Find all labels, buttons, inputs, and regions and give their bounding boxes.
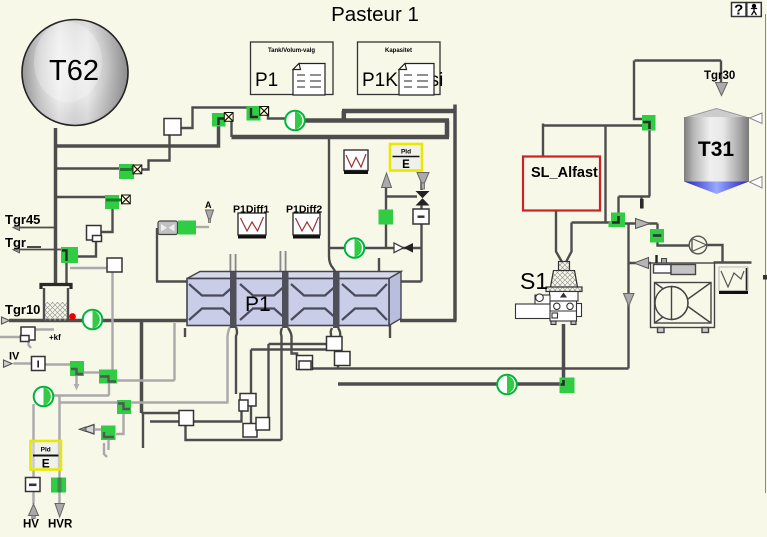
svg-text:Pasteur 1: Pasteur 1 — [331, 3, 419, 26]
svg-text:+kf: +kf — [49, 333, 61, 342]
svg-text:I: I — [37, 360, 40, 371]
svg-text:Tgr10: Tgr10 — [5, 302, 40, 317]
svg-text:PId: PId — [41, 447, 51, 454]
svg-text:SL_Alfast: SL_Alfast — [531, 165, 598, 181]
svg-text:P1Diff2: P1Diff2 — [286, 204, 322, 216]
svg-text:HV: HV — [23, 519, 39, 531]
svg-text:P1: P1 — [255, 70, 278, 91]
svg-text:IV: IV — [9, 351, 20, 363]
svg-text:Tgr45: Tgr45 — [5, 212, 40, 227]
svg-text:Tgr: Tgr — [5, 235, 26, 250]
svg-text:T31: T31 — [698, 138, 735, 161]
svg-text:Kapasitet: Kapasitet — [385, 48, 412, 54]
svg-text:E: E — [402, 159, 410, 171]
svg-text:Tank/Volum-valg: Tank/Volum-valg — [268, 48, 315, 54]
svg-text:PId: PId — [401, 149, 411, 156]
svg-text:P1: P1 — [245, 293, 271, 316]
svg-text:A: A — [205, 200, 212, 210]
svg-text:HVR: HVR — [48, 519, 73, 531]
svg-text:Tgr30: Tgr30 — [704, 70, 735, 82]
svg-text:E: E — [42, 457, 50, 471]
svg-text:P1Diff1: P1Diff1 — [233, 204, 269, 216]
svg-text:T62: T62 — [49, 55, 99, 87]
svg-text:S1: S1 — [520, 268, 548, 294]
svg-text:?: ? — [734, 2, 743, 19]
